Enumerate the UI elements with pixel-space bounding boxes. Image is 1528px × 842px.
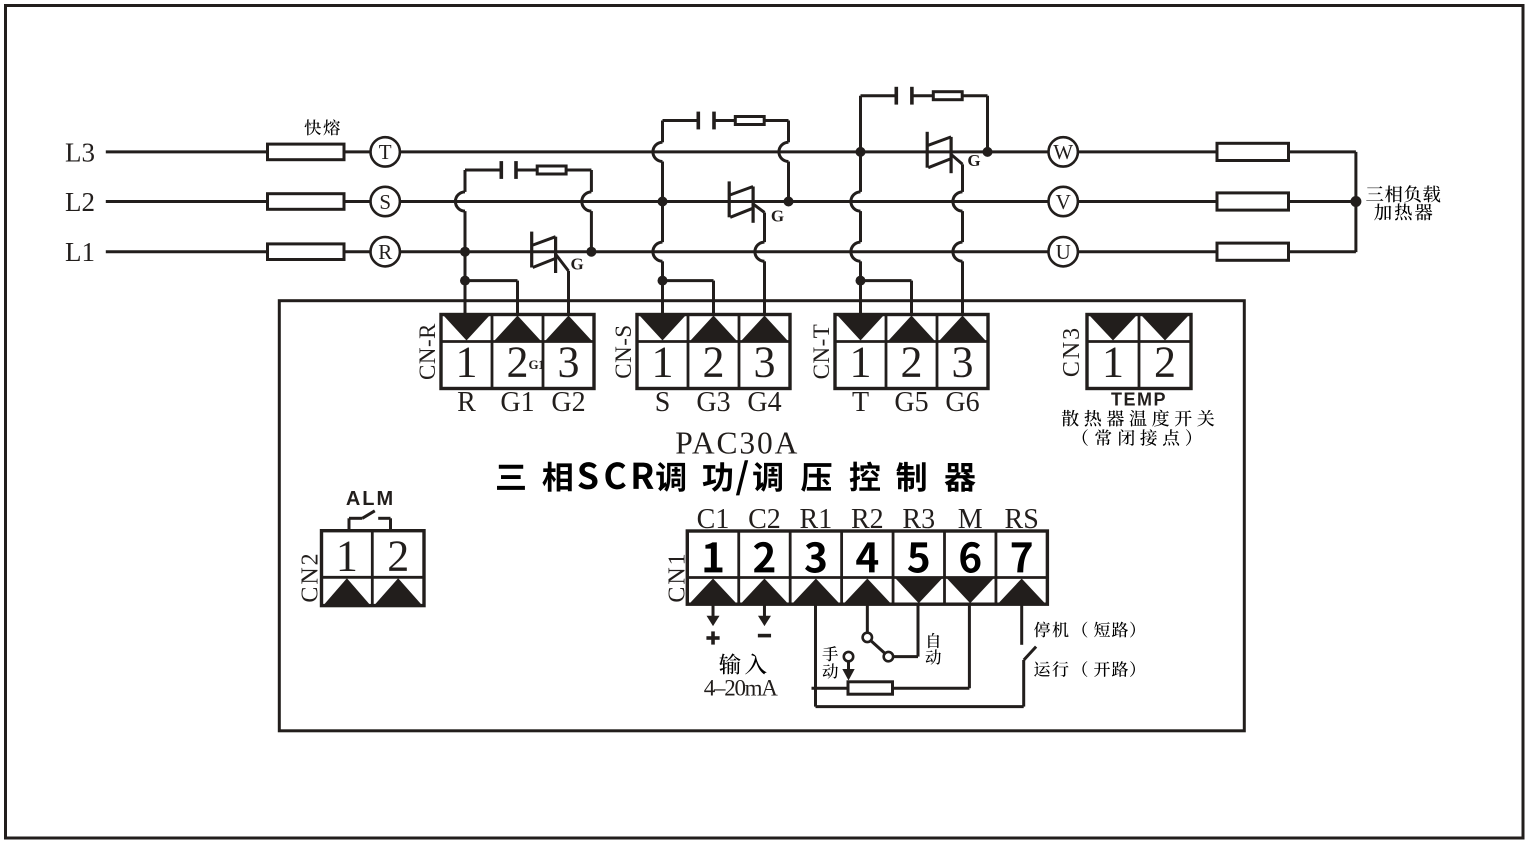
svg-text:2: 2: [901, 338, 923, 387]
label （常闭接点）: [1083, 429, 1088, 446]
svg-text:G: G: [967, 151, 980, 170]
svg-text:R2: R2: [851, 504, 884, 535]
wire 4-20mA feed line: [812, 687, 849, 690]
svg-text:G: G: [771, 207, 784, 226]
load heater element phase W: [1217, 143, 1289, 160]
terminal CN-T pin 3 connector triangle: [940, 316, 986, 341]
terminal circle S: [371, 187, 400, 216]
terminal CN1 pin 4 connector triangle: [844, 579, 890, 604]
terminal CN1 pin 2 connector triangle: [741, 579, 787, 604]
fuse 快熔 phase L1: [268, 244, 345, 260]
svg-text:RS: RS: [1005, 504, 1039, 535]
wire RS lower: [1022, 660, 1025, 707]
wire R2 (pin4) down: [866, 604, 869, 633]
potentiometer body (manual): [848, 682, 893, 694]
wire W to load: [1078, 150, 1217, 153]
load heater element phase V: [1217, 193, 1289, 210]
wire branch to terminal 2 phase T: [861, 279, 912, 282]
snubber resistor R phase R: [516, 169, 537, 172]
wire U to load: [1078, 250, 1217, 253]
wire fuse to terminal S: [344, 200, 371, 203]
svg-text:U: U: [1056, 240, 1071, 264]
wire branch to terminal 2 phase S: [663, 279, 714, 282]
wire M (pin6) down: [968, 604, 971, 688]
terminal CN1 pin 3 connector triangle: [793, 579, 839, 604]
svg-text:R: R: [378, 240, 392, 264]
svg-text:1: 1: [336, 532, 358, 581]
wire T to W: [400, 150, 1049, 153]
terminal block CN2: [322, 531, 425, 606]
node junction dot phase R line/right tap: [586, 247, 596, 257]
node junction dot phase S branch: [658, 276, 668, 286]
gate lead G phase S: [753, 204, 764, 213]
node junction dot phase S line/left tap: [658, 197, 668, 207]
svg-text:M: M: [958, 504, 983, 535]
terminal CN-R pin 3 connector triangle: [546, 316, 592, 341]
run/stop switch lever: [1024, 647, 1036, 660]
terminal CN1 pin number 5: [908, 542, 929, 573]
input - lead arrow (pin2): [763, 604, 766, 617]
terminal CN-T pin 2 connector triangle: [889, 316, 935, 341]
svg-text:L3: L3: [65, 137, 95, 167]
terminal CN3 pin 2 connector triangle: [1142, 316, 1189, 341]
svg-text:3: 3: [952, 338, 974, 387]
wire R1 (pin3) down: [814, 604, 817, 706]
terminal CN-S pin 1 connector triangle: [640, 316, 686, 341]
wire branch to terminal 2 phase R: [465, 279, 518, 282]
wire snubber left vertical / terminal 1 feed phase S: [661, 121, 664, 143]
svg-text:T: T: [379, 140, 392, 164]
svg-text:PAC30A: PAC30A: [675, 425, 799, 460]
switch auto/manual pivot: [863, 633, 872, 642]
svg-text:G1: G1: [500, 387, 534, 418]
svg-text:3: 3: [558, 338, 580, 387]
wire V to load: [1078, 200, 1217, 203]
label 手动: [822, 646, 838, 661]
svg-text:1: 1: [850, 338, 872, 387]
svg-text:C1: C1: [697, 504, 730, 535]
wire load to star point: [1289, 200, 1356, 203]
svg-text:2: 2: [507, 338, 529, 387]
svg-text:G: G: [571, 254, 584, 273]
svg-text:C2: C2: [748, 504, 781, 535]
terminal block CN-R: [441, 315, 594, 389]
terminal CN1 pin 1 connector triangle: [690, 579, 736, 604]
potentiometer wiper: [844, 652, 853, 661]
wire bottom rail: [816, 705, 1024, 708]
svg-text:CN2: CN2: [298, 551, 324, 602]
wire snubber left vertical / terminal 1 feed phase R: [464, 170, 467, 192]
label 输入: [719, 653, 740, 674]
wire auto contact to R3: [893, 655, 918, 658]
wire snubber right vertical phase S: [787, 121, 790, 143]
node junction dot phase S line/right tap: [784, 197, 794, 207]
thyristor module phase T (antiparallel SCR pair): [926, 132, 929, 168]
terminal CN-S pin 2 connector triangle: [691, 316, 737, 341]
terminal CN1 pin number 7: [1012, 542, 1032, 572]
input minus sign: [758, 634, 771, 638]
terminal CN1 pin 7 connector triangle: [998, 579, 1044, 604]
wire snubber right vertical phase T: [986, 96, 989, 152]
terminal CN1 pin number 6: [960, 542, 980, 573]
node junction dot phase T line/right tap: [983, 147, 993, 157]
svg-text:S: S: [655, 387, 671, 418]
terminal CN1 pin 5 connector triangle: [896, 579, 942, 604]
wire S to V: [400, 200, 1049, 203]
wire L1 from source to fuse: [106, 250, 268, 253]
wire snubber left vertical / terminal 1 feed phase T: [859, 96, 862, 192]
wire R to U: [400, 250, 1049, 253]
terminal circle T: [371, 137, 400, 166]
label 自动: [928, 633, 939, 648]
load heater element phase U: [1217, 243, 1289, 260]
svg-text:CN-T: CN-T: [809, 324, 834, 380]
terminal CN-R pin 2 connector triangle: [495, 316, 541, 341]
label 停机（短路）: [1034, 622, 1050, 638]
switch auto/manual lever: [871, 641, 885, 654]
wire RS (pin7) down: [1020, 604, 1023, 645]
svg-text:G5: G5: [894, 387, 928, 418]
snubber capacitor C phase T: [861, 94, 897, 97]
terminal block CN1: [687, 531, 1047, 604]
snubber resistor R phase S: [714, 119, 735, 122]
thyristor module phase R (antiparallel SCR pair): [530, 232, 533, 268]
svg-text:R: R: [457, 387, 476, 418]
svg-text:2: 2: [387, 532, 409, 581]
svg-text:W: W: [1053, 140, 1073, 164]
terminal circle U: [1049, 237, 1078, 266]
terminal CN2 pin 1 connector triangle: [324, 578, 370, 604]
terminal block CN3: [1087, 315, 1191, 389]
svg-text:CN-R: CN-R: [415, 323, 440, 380]
wire fuse to terminal T: [344, 150, 371, 153]
terminal CN2 pin 2 connector triangle: [375, 578, 422, 604]
input + lead arrow (pin1): [712, 604, 715, 617]
svg-text:CN3: CN3: [1059, 326, 1085, 377]
label 运行（开路）: [1034, 662, 1050, 677]
terminal CN-T pin 1 connector triangle: [838, 316, 884, 341]
svg-text:G1: G1: [529, 357, 545, 372]
svg-text:G6: G6: [945, 387, 979, 418]
svg-text:1: 1: [652, 338, 674, 387]
terminal CN-R pin 1 connector triangle: [444, 316, 490, 341]
terminal CN1 pin number 2: [754, 542, 774, 573]
svg-text:G2: G2: [551, 387, 585, 418]
terminal circle R: [371, 237, 400, 266]
label 散热器温度开关: [1062, 410, 1079, 427]
svg-text:TEMP: TEMP: [1111, 390, 1167, 410]
fuse 快熔 phase L2: [268, 194, 345, 210]
svg-text:R3: R3: [902, 504, 935, 535]
node star junction: [1350, 196, 1361, 207]
svg-text:S: S: [379, 190, 391, 214]
thyristor module phase S (antiparallel SCR pair): [728, 181, 731, 217]
terminal block CN-S: [637, 315, 790, 389]
wire fuse to terminal R: [344, 250, 371, 253]
node junction dot phase R line/left tap: [460, 247, 470, 257]
wire load to star point: [1289, 250, 1356, 253]
wire star point vertical: [1354, 152, 1357, 252]
svg-text:V: V: [1056, 190, 1071, 214]
terminal CN1 pin number 4: [856, 542, 878, 572]
input plus sign: [706, 636, 719, 640]
node junction dot phase T branch: [856, 276, 866, 286]
svg-text:4–20mA: 4–20mA: [704, 676, 778, 701]
svg-text:2: 2: [1154, 338, 1176, 387]
snubber capacitor C phase S: [663, 119, 699, 122]
svg-text:CN1: CN1: [664, 551, 690, 602]
svg-text:3: 3: [754, 338, 776, 387]
node junction dot phase T line/left tap: [856, 147, 866, 157]
svg-text:CN-S: CN-S: [611, 324, 636, 378]
terminal CN1 pin number 1: [704, 542, 722, 572]
svg-text:1: 1: [456, 338, 478, 387]
label 三相负载 加热器: [1366, 186, 1383, 201]
wire L2 from source to fuse: [106, 200, 268, 203]
svg-text:1: 1: [1102, 338, 1124, 387]
terminal block CN-T: [835, 315, 988, 389]
svg-text:2: 2: [703, 338, 725, 387]
gate lead G phase R: [556, 254, 569, 271]
relay contact ALM switch: [348, 518, 351, 530]
fuse 快熔 phase L3: [268, 144, 345, 160]
terminal CN1 pin number 3: [805, 542, 826, 573]
wire load to star point: [1289, 150, 1356, 153]
terminal CN1 pin 6 connector triangle: [947, 579, 993, 604]
svg-text:R1: R1: [800, 504, 833, 535]
svg-text:ALM: ALM: [346, 488, 395, 510]
title 三相SCR调功/调压控制器: [497, 465, 525, 490]
terminal CN-S pin 3 connector triangle: [742, 316, 788, 341]
switch auto contact: [884, 652, 893, 661]
terminal circle W: [1049, 137, 1078, 166]
wire L3 from source to fuse: [106, 150, 268, 153]
svg-text:G4: G4: [747, 387, 781, 418]
svg-text:T: T: [852, 387, 869, 418]
svg-text:G3: G3: [696, 387, 730, 418]
svg-text:L1: L1: [65, 237, 95, 267]
fuse label 快熔: [305, 119, 321, 135]
snubber resistor R phase T: [912, 94, 933, 97]
terminal circle V: [1049, 187, 1078, 216]
wire snubber right vertical phase R: [590, 170, 593, 192]
snubber capacitor C phase R: [465, 169, 501, 172]
node junction dot phase R branch: [460, 276, 470, 286]
gate lead G phase T: [951, 154, 962, 164]
controller PAC30A enclosure box: [279, 301, 1244, 731]
terminal CN3 pin 1 connector triangle: [1090, 316, 1137, 341]
svg-text:L2: L2: [65, 187, 95, 217]
